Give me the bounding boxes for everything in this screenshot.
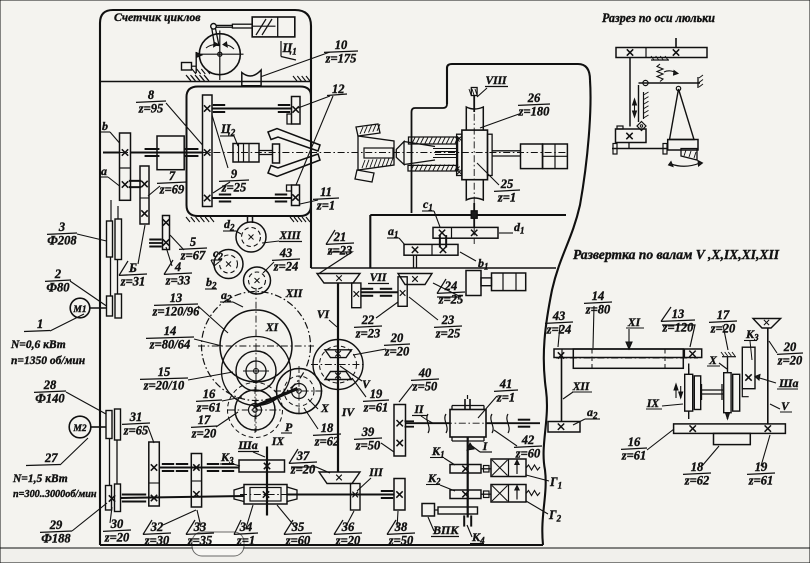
lower feed coupling a (122, 494, 134, 496)
head step to bore (412, 104, 448, 213)
leader 41 (478, 396, 497, 418)
svg-text:N=0,6 кВт: N=0,6 кВт (10, 339, 66, 351)
leader 39 (381, 443, 394, 452)
shaft coupling left tick (145, 148, 160, 150)
pulley 29 disc (106, 486, 112, 511)
svg-text:z=1: z=1 (497, 191, 516, 205)
ratchet shoe (242, 70, 261, 86)
svg-text:XII: XII (572, 381, 590, 393)
leader I (472, 446, 480, 452)
razrez lower left bar (616, 129, 647, 143)
gear 5 body (163, 216, 170, 250)
workpiece bore (364, 148, 393, 158)
shaft 7 to 5 stub (149, 242, 163, 244)
svg-text:4: 4 (174, 260, 181, 274)
label 42 (514, 433, 542, 461)
razv X shaft stub top (727, 357, 729, 373)
razv leader 13 (662, 325, 695, 347)
svg-text:z=24: z=24 (273, 260, 299, 274)
spindle shaft right (492, 150, 521, 152)
razv bar 16 cross left (690, 425, 696, 431)
gear 12 foot (287, 114, 292, 124)
head left edge upper (446, 75, 448, 104)
leader 38 (397, 511, 398, 528)
gear 26 block (462, 130, 488, 180)
leader 27 (60, 438, 88, 465)
gear 26 left tab (457, 134, 462, 175)
cylinder Ц2 body (233, 144, 259, 163)
label 40 (411, 366, 439, 394)
razrez rod2 arrows (633, 99, 637, 105)
razv clutch K3 (742, 347, 755, 389)
Ц2 rod (259, 150, 273, 152)
clutch K2 bar (450, 490, 481, 499)
gear circle 16 z61 (222, 337, 291, 406)
svg-text:14: 14 (592, 289, 605, 303)
gear 8 cross mid (204, 149, 210, 155)
leader Б (138, 225, 145, 264)
leader VIII (477, 88, 487, 97)
gear 12 cross (293, 106, 299, 112)
razrez lever (639, 82, 701, 84)
razv leader XII (563, 392, 573, 399)
razv label 16 (621, 435, 647, 463)
razv bar cross right (689, 351, 695, 357)
razv bar left cap (561, 349, 563, 358)
svg-text:z=175: z=175 (325, 52, 357, 66)
cylinder Ц1 hatch stroke 1 (256, 19, 266, 35)
svg-text:XII: XII (285, 288, 303, 300)
svg-text:37: 37 (296, 449, 310, 463)
c1 cross (439, 230, 445, 236)
VPK switch box (422, 504, 435, 517)
shaft II left (406, 422, 451, 424)
razv I-beam (701, 389, 723, 391)
svg-text:20: 20 (783, 340, 797, 354)
svg-text:25: 25 (500, 177, 514, 191)
leader 18 main (304, 408, 318, 429)
label pulley 29 (40, 518, 72, 546)
razv IX stubs (688, 364, 690, 375)
svg-text:21: 21 (333, 230, 347, 244)
leader 7 (148, 186, 160, 196)
gear 26 right tab (488, 134, 493, 175)
label 21 flag (326, 230, 335, 245)
gear 5 cross bottom (163, 239, 169, 245)
razv leader IX (662, 404, 683, 406)
razv label 20 (777, 340, 803, 368)
svg-text:z=25: z=25 (221, 181, 247, 195)
svg-text:13: 13 (170, 291, 183, 305)
valve G2 spring (526, 491, 540, 496)
leader 2 (70, 281, 107, 306)
label Б flag (119, 261, 128, 276)
clutch housing (157, 136, 184, 170)
leader V main (340, 366, 362, 381)
svg-text:43: 43 (552, 309, 566, 323)
razv IX top stub (688, 368, 690, 374)
crank pivot circle (211, 24, 217, 30)
circle b2 inner dashed (249, 272, 266, 289)
svg-text:z=23: z=23 (355, 327, 381, 341)
svg-text:X: X (320, 403, 329, 415)
leader 12 to gear11 (296, 96, 333, 185)
label pulley 3 (47, 220, 77, 248)
gear 40 body (394, 405, 406, 457)
svg-text:Разрез по оси люльки: Разрез по оси люльки (602, 11, 715, 25)
svg-text:Ф140: Ф140 (35, 392, 65, 406)
svg-text:п=1350 об/мин: п=1350 об/мин (11, 355, 86, 367)
label gear 7 (157, 169, 187, 197)
razv bar axis (556, 357, 698, 359)
svg-text:7: 7 (169, 169, 176, 183)
razv label 13 (661, 307, 695, 335)
svg-text:М2: М2 (72, 424, 86, 434)
leader 17 main (216, 412, 238, 427)
leader II (421, 416, 433, 423)
label 39 (354, 425, 382, 453)
svg-text:17: 17 (198, 413, 211, 427)
svg-text:VI: VI (317, 309, 330, 321)
svg-text:z=65: z=65 (123, 424, 149, 438)
a1 cross (412, 247, 418, 253)
svg-text:XI: XI (627, 317, 641, 329)
gear circle IX hub (249, 404, 262, 417)
razv leader 20 (769, 341, 777, 353)
leader III (357, 478, 371, 491)
razv IIIa arrow (758, 378, 776, 384)
label 35 flag (284, 520, 293, 535)
circle XI centerline vertical (255, 288, 257, 432)
razv bar right cap (684, 349, 686, 358)
razv gear X pair (724, 373, 731, 413)
svg-text:38: 38 (394, 520, 408, 534)
razv leader 43 (558, 325, 560, 347)
leader VPK (428, 517, 434, 531)
svg-text:z=69: z=69 (159, 183, 185, 197)
gear 8 body (203, 95, 213, 207)
clutch right tick (184, 148, 199, 150)
pulley 28 disc (106, 411, 112, 439)
label 37 flag (289, 449, 298, 464)
cradle top line (311, 267, 556, 269)
label 21 (326, 230, 354, 258)
a1 shaft stub to cradle (413, 255, 415, 268)
worm 41 top ticks (464, 399, 466, 409)
shaft II wavy break left (427, 414, 429, 433)
lower jaw (268, 154, 320, 177)
razrez top bar cross right (673, 49, 679, 55)
razv X shaft stub bottom (727, 413, 729, 419)
razrez swing arrow (671, 163, 700, 166)
bevel gear 20 trapezoid (325, 350, 352, 358)
circle IX dashed pitch (228, 383, 283, 438)
shaft II slide coupling (405, 420, 415, 422)
svg-text:Ф208: Ф208 (47, 234, 77, 248)
counter floor line (100, 81, 311, 83)
lower shaft coupling left (219, 194, 231, 196)
leader 15 main (188, 372, 233, 380)
gear 31 cross top (151, 464, 157, 470)
gear 11 body (292, 185, 300, 206)
leader 43 main (263, 262, 274, 273)
leader 24 (433, 283, 461, 297)
gear bar a1-b1 (404, 244, 458, 255)
pulley 2 disc (107, 296, 113, 316)
clutch K1 bar (450, 465, 481, 474)
leader 9 lower (213, 182, 230, 193)
clamp piston rod box (481, 278, 492, 286)
razv bottom bar 16 (674, 424, 786, 434)
razv shaft V (767, 328, 769, 424)
svg-text:z=50: z=50 (355, 439, 381, 453)
svg-text:40: 40 (418, 366, 432, 380)
shaft M1 to pulley (90, 307, 107, 309)
svg-text:P: P (285, 420, 293, 434)
circle 15 crosshair (243, 370, 269, 372)
razrez vertical rod2 (638, 85, 640, 122)
cam follower stem (192, 65, 197, 67)
gear circle 15 hub (254, 369, 259, 374)
workpiece body (358, 136, 394, 170)
shaft II right coupling (518, 419, 530, 421)
belt M1 (110, 257, 112, 296)
razrez flange shaft (612, 148, 668, 150)
counter gearbox frame (187, 87, 312, 217)
gear 5 cross top (163, 219, 169, 225)
Ц2 piston lines (238, 144, 240, 163)
leader IIIa (253, 452, 265, 457)
label 41 (494, 377, 518, 405)
label gear 4 (164, 260, 192, 288)
lower feed shaft (121, 496, 245, 498)
svg-text:М1: М1 (72, 305, 86, 315)
bevel gear 19 trapezoid (325, 372, 352, 380)
svg-text:23: 23 (441, 313, 455, 327)
label gear 8 (136, 88, 166, 116)
shaft VI vertical (337, 283, 339, 472)
razv 13 flag (661, 307, 671, 322)
leader 29 (72, 503, 107, 531)
label 24 (437, 279, 465, 307)
label 32 flag (143, 520, 152, 535)
leader X main (308, 399, 318, 409)
leader 11 (300, 200, 318, 204)
svg-text:15: 15 (158, 365, 171, 379)
gear 31 cross bottom (151, 495, 157, 501)
svg-text:42: 42 (521, 433, 535, 447)
razrez hatch column (643, 92, 645, 119)
shaft VII coupling a (361, 288, 373, 290)
cam rotation arrow left (206, 44, 216, 48)
gear 7-4 divider (140, 197, 149, 199)
gear 12 body (292, 97, 301, 125)
svg-text:16: 16 (628, 435, 641, 449)
svg-text:z=35: z=35 (187, 534, 213, 548)
label 32 (143, 520, 171, 548)
sleeve cone lines (404, 142, 435, 147)
leader G1 (526, 475, 549, 481)
leader G2 (526, 501, 548, 514)
svg-text:N=1,5 кВт: N=1,5 кВт (12, 473, 68, 485)
svg-text:IX: IX (646, 398, 659, 410)
razrez lever ball (643, 80, 648, 85)
ground hatching under cam (186, 75, 190, 80)
svg-text:5: 5 (190, 235, 196, 249)
razv leader X (719, 363, 727, 369)
link bar P (254, 389, 298, 408)
gear 8 cross top (204, 105, 210, 111)
circle d2 inner dashed (242, 228, 261, 247)
jaw hub (273, 144, 280, 163)
svg-text:z=24: z=24 (546, 323, 572, 337)
razrez top bar (616, 48, 707, 58)
svg-text:10: 10 (335, 38, 348, 52)
razv leader 18 (702, 446, 719, 466)
svg-text:9: 9 (231, 167, 238, 181)
frame bottom hatching right (290, 217, 294, 222)
leader 10 (262, 52, 331, 77)
label 15 main (140, 365, 188, 393)
leader 22 (376, 302, 398, 318)
svg-text:14: 14 (164, 324, 177, 338)
shaft VIII coupling square (471, 211, 477, 219)
machine right wavy edge (542, 80, 590, 545)
circle c2 (214, 250, 243, 279)
d1 cross (471, 230, 477, 236)
main axis centerline (103, 152, 567, 154)
razv label 43 (545, 309, 573, 337)
razv updown arrows (674, 384, 678, 390)
gear 38 cross (396, 491, 402, 497)
razv leader 16 (647, 429, 674, 450)
svg-text:z=20/10: z=20/10 (143, 379, 185, 393)
leader 1 (50, 314, 84, 331)
bevel 37 trapezoid (319, 472, 360, 484)
cam crosshair vertical (219, 31, 221, 81)
razrez sector segment (681, 149, 697, 161)
shaft through clutch (131, 152, 203, 154)
razv leader 19 (761, 435, 770, 466)
shaft VII (361, 291, 398, 293)
razv label 17 (709, 308, 737, 336)
worm 34 axis (240, 494, 292, 496)
cam disc circle (199, 34, 240, 75)
leader 30 (110, 507, 112, 523)
label 34 (234, 520, 258, 548)
svg-text:Счетчик циклов: Счетчик циклов (114, 10, 201, 24)
svg-text:z=61: z=61 (363, 401, 389, 415)
svg-text:13: 13 (672, 307, 685, 321)
upper feed coupling a (162, 463, 174, 465)
belt M2 (109, 439, 111, 486)
shaft VIII top knob (471, 88, 477, 96)
label pulley 28 (34, 378, 66, 406)
gear 4 cross (141, 210, 147, 216)
leader VI (329, 320, 337, 327)
bevel gear 22 flag (398, 277, 407, 307)
svg-text:24: 24 (444, 279, 458, 293)
counter lower shaft (212, 197, 292, 199)
gear 26 upper rim (466, 107, 483, 130)
counter upper shaft (212, 108, 292, 110)
svg-text:II: II (414, 404, 424, 416)
svg-text:Ф188: Ф188 (41, 532, 71, 546)
leader K1 (444, 458, 455, 465)
label Ц1 bracket (280, 41, 282, 57)
cylinder Ц1 rod tick (252, 25, 275, 27)
svg-text:19: 19 (755, 460, 768, 474)
gear 33 cross bottom (193, 491, 199, 497)
shaft VIII upper stub (473, 95, 475, 112)
leader 23 (409, 297, 438, 320)
label 4 flag (164, 260, 173, 275)
svg-text:z=30: z=30 (144, 534, 170, 548)
svg-text:z=1: z=1 (496, 391, 515, 405)
leader 26 (480, 114, 519, 128)
svg-text:19: 19 (370, 387, 383, 401)
motor M2 circle (69, 416, 91, 438)
bevel 36 flag (351, 484, 361, 511)
svg-text:18: 18 (321, 421, 334, 435)
svg-text:30: 30 (110, 517, 124, 531)
svg-text:b: b (102, 119, 108, 133)
svg-text:27: 27 (44, 451, 58, 465)
svg-text:31: 31 (129, 410, 143, 424)
upper shaft coupling left (213, 104, 225, 106)
label 14 main (146, 324, 194, 352)
bevel gear 24 trapezoid (398, 274, 432, 285)
svg-text:Ф80: Ф80 (46, 281, 70, 295)
sleeve hatched top (409, 137, 458, 144)
label 13 main (152, 291, 200, 319)
leader 5 (170, 235, 184, 250)
bevel gear 21 flag (352, 283, 361, 308)
head bottom edge (370, 214, 566, 216)
svg-text:a: a (101, 164, 107, 178)
svg-text:z=23: z=23 (327, 244, 353, 258)
label 33 flag (186, 520, 195, 535)
razv leader V (770, 404, 780, 409)
worm 34 flange left (234, 487, 244, 502)
cam follower arrow (196, 53, 202, 58)
label 25 (494, 177, 520, 205)
leader 28 (66, 392, 106, 414)
collet nose (396, 142, 404, 165)
razv bar cross left (558, 352, 564, 358)
label gear 10 (324, 38, 358, 66)
svg-text:z=61: z=61 (748, 474, 774, 488)
svg-text:z=31: z=31 (120, 275, 146, 289)
label 34 flag (234, 520, 241, 535)
razv leader 14 (593, 306, 594, 348)
leader 8 (166, 103, 203, 145)
svg-text:z=95: z=95 (138, 102, 164, 116)
gear 31 body (149, 442, 160, 506)
cylinder Ц1 divider (277, 17, 279, 37)
cylinder Ц1 hatch stroke 2 (262, 19, 272, 35)
leader 32 (163, 510, 196, 525)
svg-text:I: I (482, 441, 488, 453)
razrez lever anchor (697, 77, 699, 88)
circle X crosshair (274, 390, 324, 392)
svg-text:29: 29 (49, 518, 63, 532)
razrez top bar stub (675, 38, 677, 48)
label 26 (518, 91, 550, 119)
razv label 18 (683, 460, 711, 488)
gear bar IIIa (239, 460, 285, 472)
piston rod (232, 24, 252, 28)
